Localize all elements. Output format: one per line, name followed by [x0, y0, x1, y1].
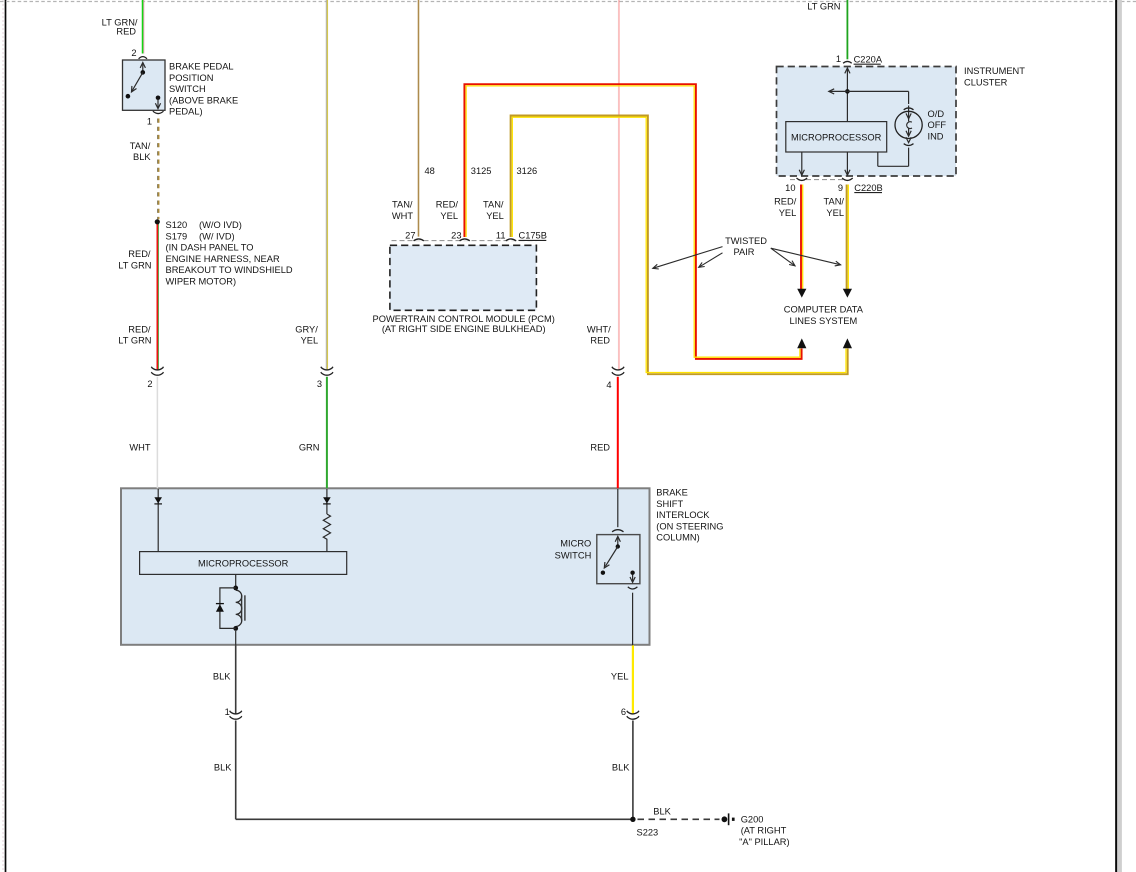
svg-text:BRAKE: BRAKE [656, 488, 688, 498]
svg-text:C175B: C175B [519, 230, 547, 240]
svg-text:S120: S120 [166, 220, 188, 230]
svg-text:YEL: YEL [779, 208, 797, 218]
svg-text:C220A: C220A [854, 54, 883, 64]
svg-text:SHIFT: SHIFT [656, 499, 683, 509]
svg-text:CLUSTER: CLUSTER [964, 78, 1008, 88]
svg-text:PEDAL): PEDAL) [169, 107, 203, 117]
svg-text:23: 23 [451, 230, 461, 240]
svg-text:BLK: BLK [213, 671, 231, 681]
svg-text:COLUMN): COLUMN) [656, 533, 699, 543]
svg-text:48: 48 [425, 166, 435, 176]
svg-text:COMPUTER DATA: COMPUTER DATA [784, 305, 864, 315]
svg-text:TAN/: TAN/ [392, 200, 413, 210]
svg-text:(IN DASH PANEL TO: (IN DASH PANEL TO [166, 243, 254, 253]
svg-text:C220B: C220B [854, 183, 882, 193]
svg-text:RED/: RED/ [436, 200, 459, 210]
svg-text:TWISTED: TWISTED [725, 236, 767, 246]
svg-text:PAIR: PAIR [733, 247, 754, 257]
svg-text:27: 27 [405, 230, 415, 240]
svg-text:ENGINE HARNESS, NEAR: ENGINE HARNESS, NEAR [166, 254, 280, 264]
svg-text:WIPER MOTOR): WIPER MOTOR) [166, 277, 237, 287]
svg-text:RED/: RED/ [774, 197, 797, 207]
svg-text:LT GRN: LT GRN [807, 2, 840, 12]
svg-text:POWERTRAIN CONTROL MODULE (PCM: POWERTRAIN CONTROL MODULE (PCM) [373, 314, 555, 324]
svg-text:YEL: YEL [440, 211, 458, 221]
svg-text:YEL: YEL [486, 211, 504, 221]
svg-text:INSTRUMENT: INSTRUMENT [964, 66, 1025, 76]
svg-text:YEL: YEL [611, 671, 629, 681]
svg-text:SWITCH: SWITCH [169, 84, 206, 94]
svg-text:TAN/: TAN/ [130, 141, 151, 151]
svg-text:BLK: BLK [612, 762, 630, 772]
svg-text:RED: RED [590, 442, 610, 452]
svg-text:OFF: OFF [928, 120, 947, 130]
svg-text:GRN: GRN [299, 442, 320, 452]
svg-text:MICRO: MICRO [560, 538, 591, 548]
svg-text:S179: S179 [166, 231, 188, 241]
svg-text:"A" PILLAR): "A" PILLAR) [739, 837, 790, 847]
svg-text:S223: S223 [637, 828, 659, 838]
svg-text:YEL: YEL [826, 208, 844, 218]
svg-text:BREAKOUT TO WINDSHIELD: BREAKOUT TO WINDSHIELD [166, 265, 293, 275]
svg-text:WHT: WHT [129, 442, 150, 452]
svg-text:10: 10 [785, 183, 795, 193]
svg-text:BLK: BLK [133, 152, 151, 162]
svg-text:(W/ IVD): (W/ IVD) [199, 231, 235, 241]
svg-text:WHT/: WHT/ [587, 324, 611, 334]
svg-text:IND: IND [928, 132, 944, 142]
svg-text:3125: 3125 [471, 166, 492, 176]
svg-text:(AT RIGHT SIDE ENGINE BULKHEAD: (AT RIGHT SIDE ENGINE BULKHEAD) [382, 324, 546, 334]
svg-text:(AT RIGHT: (AT RIGHT [741, 826, 787, 836]
svg-text:(W/O IVD): (W/O IVD) [199, 220, 242, 230]
svg-text:BLK: BLK [214, 762, 232, 772]
svg-text:YEL: YEL [301, 336, 319, 346]
svg-text:4: 4 [606, 380, 611, 390]
svg-text:MICROPROCESSOR: MICROPROCESSOR [198, 559, 289, 569]
svg-text:6: 6 [621, 707, 626, 717]
svg-text:G200: G200 [741, 814, 764, 824]
svg-text:(ON STEERING: (ON STEERING [656, 521, 723, 531]
svg-text:RED/: RED/ [128, 324, 151, 334]
svg-text:1: 1 [225, 707, 230, 717]
svg-text:WHT: WHT [392, 211, 413, 221]
svg-text:TAN/: TAN/ [483, 200, 504, 210]
svg-text:BRAKE PEDAL: BRAKE PEDAL [169, 62, 234, 72]
svg-text:2: 2 [147, 379, 152, 389]
svg-text:LINES SYSTEM: LINES SYSTEM [790, 316, 858, 326]
svg-text:BLK: BLK [653, 807, 671, 817]
svg-text:TAN/: TAN/ [824, 197, 845, 207]
svg-text:RED: RED [116, 27, 136, 37]
svg-text:3126: 3126 [517, 166, 538, 176]
svg-text:INTERLOCK: INTERLOCK [656, 510, 710, 520]
svg-text:O/D: O/D [928, 109, 945, 119]
svg-text:POSITION: POSITION [169, 73, 213, 83]
svg-text:2: 2 [131, 48, 136, 58]
svg-text:9: 9 [838, 183, 843, 193]
svg-text:MICROPROCESSOR: MICROPROCESSOR [791, 132, 882, 142]
svg-text:LT GRN: LT GRN [118, 336, 151, 346]
svg-text:11: 11 [496, 230, 506, 240]
svg-text:LT GRN: LT GRN [118, 260, 151, 270]
svg-text:3: 3 [317, 379, 322, 389]
svg-text:RED/: RED/ [128, 249, 151, 259]
svg-text:1: 1 [836, 54, 841, 64]
svg-text:SWITCH: SWITCH [555, 551, 592, 561]
svg-text:1: 1 [147, 117, 152, 127]
svg-text:(ABOVE BRAKE: (ABOVE BRAKE [169, 95, 238, 105]
svg-text:GRY/: GRY/ [295, 324, 318, 334]
svg-text:RED: RED [590, 336, 610, 346]
